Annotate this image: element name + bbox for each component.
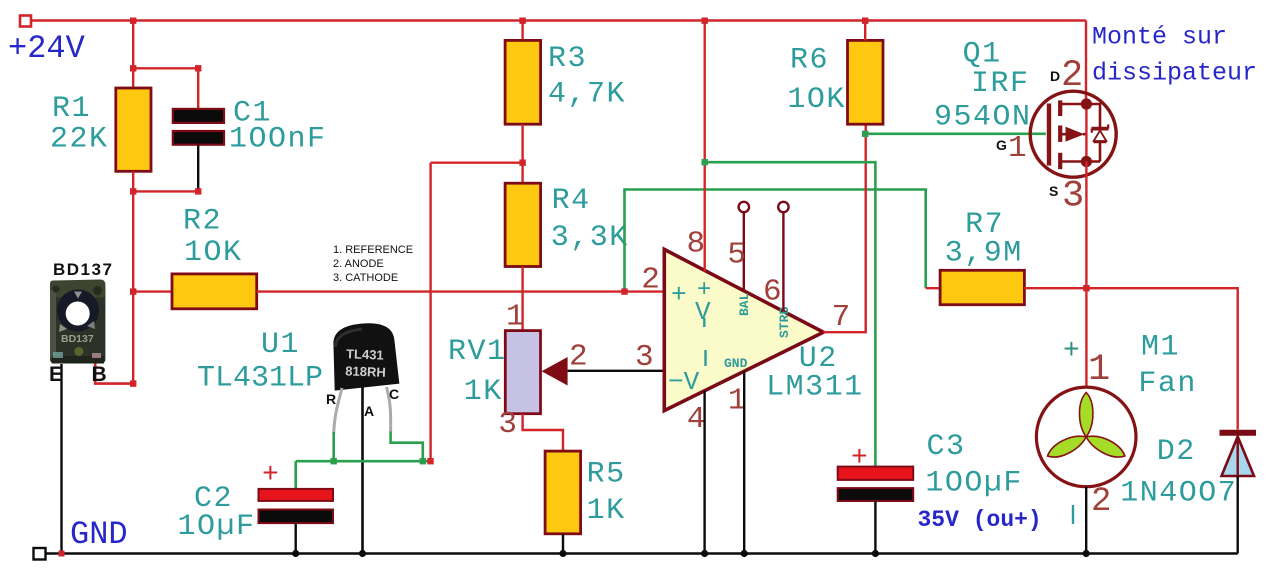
svg-text:1K: 1K — [587, 494, 626, 528]
pin6 wire and circle — [778, 202, 788, 212]
svg-text:1: 1 — [1088, 349, 1110, 391]
node emitter gnd — [59, 551, 65, 557]
pin R leg — [334, 388, 342, 433]
svg-text:R2: R2 — [183, 205, 222, 239]
svg-text:A: A — [364, 403, 374, 419]
node base — [130, 380, 136, 386]
svg-text:2. ANODE: 2. ANODE — [333, 258, 384, 270]
node rail-R1 — [130, 18, 136, 24]
svg-text:4,7K: 4,7K — [548, 78, 626, 112]
svg-text:D2: D2 — [1157, 435, 1196, 469]
tick below +V — [703, 318, 705, 327]
wire R4 top lead — [521, 163, 523, 184]
resistor R5 — [545, 451, 581, 534]
svg-text:TL431: TL431 — [346, 346, 384, 362]
wire R1 top — [132, 21, 134, 89]
wire C1 to R1 line — [133, 190, 198, 192]
transistor BD137 package photo — [50, 280, 106, 364]
wire green cathode leg — [391, 432, 423, 462]
svg-text:S: S — [1049, 183, 1058, 199]
wire green C2 riser — [294, 461, 297, 489]
svg-text:R3: R3 — [548, 42, 587, 76]
capacitor C2 — [259, 489, 334, 523]
svg-text:3: 3 — [498, 407, 517, 442]
wire ref node horizontal — [431, 161, 523, 163]
pin8 wire — [704, 21, 706, 272]
wire M1 bottom lead — [1085, 487, 1087, 554]
wire green to C3 — [705, 162, 876, 466]
wire emitter to gnd — [60, 364, 62, 554]
wire R7 right to D2 — [1024, 288, 1237, 429]
node C3 gnd — [872, 550, 879, 557]
node pin4 gnd — [701, 550, 708, 557]
svg-text:3: 3 — [635, 340, 654, 375]
wire D2 anode to rail — [1236, 476, 1238, 554]
capacitor C3 — [838, 467, 914, 501]
wire R5 bottom lead — [562, 534, 564, 554]
svg-text:6: 6 — [763, 275, 782, 310]
pin1 gnd wire — [743, 371, 745, 553]
pin5 wire and circle — [739, 202, 749, 212]
svg-text:R: R — [326, 391, 336, 407]
svg-text:2: 2 — [1091, 483, 1111, 521]
svg-text:2: 2 — [641, 263, 660, 298]
svg-text:Monté sur: Monté sur — [1092, 23, 1227, 52]
svg-text:GND: GND — [70, 516, 128, 553]
node gate tap green — [862, 131, 868, 137]
wire green tl431 net horizontal — [296, 460, 431, 463]
resistor R6 — [848, 40, 884, 124]
svg-text:IRF: IRF — [971, 67, 1030, 101]
svg-text:BD137: BD137 — [53, 260, 113, 279]
svg-text:1OK: 1OK — [184, 236, 243, 270]
resistor R3 — [505, 40, 540, 124]
motor M1 fan — [1036, 387, 1136, 487]
svg-text:U1: U1 — [261, 328, 300, 362]
svg-text:B: B — [92, 363, 107, 386]
node R1-R2-base — [130, 288, 136, 294]
node rail-pin8 — [702, 18, 708, 24]
wire top rail — [31, 19, 1086, 21]
svg-text:R4: R4 — [552, 184, 591, 218]
svg-text:2: 2 — [1061, 55, 1083, 97]
wire green feedback vertical at 624.5 — [625, 190, 926, 292]
wire R6 top lead — [864, 21, 866, 41]
node pin1 gnd — [741, 550, 748, 557]
svg-text:1N4OO7: 1N4OO7 — [1120, 477, 1237, 511]
pin A leg wire — [361, 387, 364, 554]
svg-text:4: 4 — [687, 402, 706, 437]
wire C1 bottom lead — [197, 145, 199, 192]
svg-text:+: + — [671, 280, 687, 310]
wire gate green — [865, 133, 1046, 136]
node red cathode riser — [427, 458, 433, 464]
wire R3 bottom lead — [521, 124, 523, 163]
svg-text:2: 2 — [569, 340, 588, 375]
svg-text:818RH: 818RH — [345, 363, 386, 379]
wire base to BD137 — [95, 362, 133, 384]
node green C leg — [420, 458, 426, 464]
svg-text:RV1: RV1 — [448, 335, 507, 369]
svg-text:−V: −V — [668, 367, 700, 397]
svg-text:3,9M: 3,9M — [945, 237, 1023, 271]
svg-text:1. REFERENCE: 1. REFERENCE — [333, 244, 413, 256]
svg-text:1: 1 — [1008, 131, 1027, 166]
resistor R4 — [505, 183, 540, 266]
wire R2 left lead — [133, 290, 172, 292]
tick above V — [704, 350, 706, 366]
node R5 gnd — [559, 550, 566, 557]
wire base drop — [132, 292, 134, 384]
node C3 supply tap green — [702, 159, 708, 165]
svg-text:LM311: LM311 — [766, 371, 864, 405]
wire gnd rail — [46, 552, 1238, 555]
wire pin2 net R2 to opamp — [257, 290, 665, 292]
svg-text:1OK: 1OK — [787, 83, 846, 117]
wire green ref leg — [332, 432, 335, 461]
wire Q1 source down — [1085, 162, 1087, 388]
svg-text:1OµF: 1OµF — [178, 510, 256, 544]
svg-text:1OOµF: 1OOµF — [925, 467, 1023, 501]
node R1-C1 top — [130, 65, 136, 71]
wire R3 top lead — [521, 21, 523, 41]
svg-text:GND: GND — [724, 356, 748, 371]
svg-text:3. CATHODE: 3. CATHODE — [333, 272, 398, 284]
svg-text:R6: R6 — [790, 44, 829, 78]
wire wiper to pin3 opamp — [568, 370, 665, 372]
svg-text:+: + — [1063, 336, 1080, 367]
wire C3 bottom lead — [874, 501, 876, 554]
wire RV1 bottom to R5 — [523, 414, 563, 451]
diode D2 — [1220, 433, 1257, 476]
node R1-C1 bottom left — [130, 188, 136, 194]
wire Q1 drain drop — [1085, 21, 1087, 105]
potentiometer RV1 — [505, 331, 540, 414]
node C2 gnd — [292, 550, 299, 557]
svg-text:22K: 22K — [50, 123, 109, 157]
svg-text:G: G — [996, 137, 1007, 153]
svg-text:1OOnF: 1OOnF — [229, 123, 327, 157]
svg-text:Fan: Fan — [1138, 367, 1197, 401]
capacitor C1 — [173, 109, 224, 145]
svg-text:BAL: BAL — [737, 292, 752, 316]
node green R leg — [331, 458, 337, 464]
node pin2-feedback — [621, 288, 627, 294]
wire TL431 cathode riser — [429, 163, 431, 462]
resistor R1 — [116, 88, 151, 171]
svg-text:3: 3 — [1062, 176, 1084, 218]
svg-text:BD137: BD137 — [61, 333, 94, 345]
svg-text:C: C — [389, 386, 399, 402]
wire R7 left lead — [926, 287, 940, 289]
svg-text:V: V — [695, 297, 711, 327]
svg-text:C3: C3 — [927, 430, 966, 464]
wire R4 bottom to RV1 — [521, 267, 523, 331]
svg-text:35V (ou+): 35V (ou+) — [918, 507, 1042, 533]
node R3-R4 — [519, 160, 525, 166]
transistor U1 TL431 package photo — [330, 321, 399, 390]
svg-text:3,3K: 3,3K — [551, 221, 629, 255]
node C1 bottom — [195, 188, 201, 194]
svg-text:5: 5 — [727, 238, 746, 273]
wire C1 top lead — [133, 68, 198, 109]
svg-text:+24V: +24V — [8, 30, 86, 67]
svg-text:7: 7 — [832, 300, 851, 335]
svg-text:8: 8 — [687, 227, 706, 262]
svg-text:M1: M1 — [1141, 331, 1180, 365]
pin4 wire — [703, 391, 705, 554]
wire R1 bottom — [132, 171, 134, 291]
node rail-R6 — [862, 18, 868, 24]
wiper arrow RV1 — [542, 357, 568, 386]
svg-text:E: E — [49, 363, 63, 386]
svg-text:R1: R1 — [52, 92, 91, 126]
transistor Q1 MOSFET — [1030, 91, 1116, 177]
svg-text:954ON: 954ON — [934, 101, 1032, 135]
svg-text:D: D — [1050, 68, 1060, 84]
node C1 top — [195, 65, 201, 71]
resistor R2 — [172, 274, 257, 309]
svg-text:dissipateur: dissipateur — [1092, 59, 1257, 88]
terminal GND — [34, 548, 46, 560]
node rail-R3 — [519, 18, 525, 24]
svg-text:+: + — [262, 460, 279, 491]
tick M1 minus — [1072, 505, 1074, 524]
node M1 gnd — [1083, 550, 1090, 557]
node fan top — [1083, 285, 1089, 291]
pin C leg — [387, 387, 391, 433]
terminal +24V — [20, 16, 31, 27]
wire C2 bottom lead — [295, 523, 297, 553]
resistor R7 — [940, 270, 1024, 304]
node TL431 A gnd — [359, 550, 366, 557]
svg-text:1K: 1K — [464, 375, 503, 409]
pin7 output wire — [823, 124, 865, 332]
svg-text:R5: R5 — [587, 458, 626, 492]
op-amp U2 — [664, 249, 823, 410]
svg-text:TL431LP: TL431LP — [197, 362, 323, 396]
